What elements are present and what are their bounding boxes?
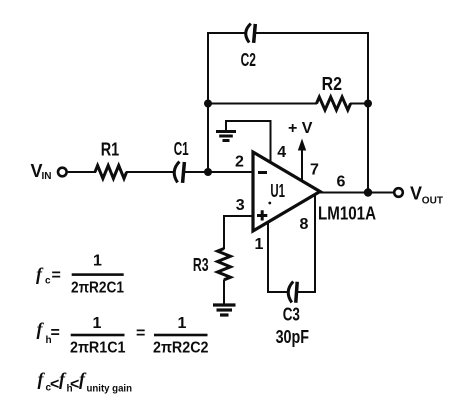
svg-text:4: 4 xyxy=(277,144,286,161)
svg-text:C3: C3 xyxy=(283,305,300,325)
svg-text:f: f xyxy=(38,369,46,389)
svg-text:2πR2C1: 2πR2C1 xyxy=(71,280,124,297)
junction: left vertical / R2 row xyxy=(204,100,212,108)
wire: pin 3 horizontal xyxy=(224,215,253,217)
wire: pin 4 vertical from op-amp top edge xyxy=(270,121,272,164)
ground (below R3) xyxy=(213,305,236,315)
svg-text:V: V xyxy=(410,184,422,204)
formula fc &lt; fh &lt; f unity gain xyxy=(38,369,133,395)
node VIN: input terminal xyxy=(58,168,67,177)
wire: output from apex to VOUT terminal xyxy=(320,192,394,194)
resistor R3 xyxy=(218,249,231,280)
wire: top feedback horizontal, right of C2 xyxy=(256,32,370,34)
ground (compensation, pin 4) xyxy=(216,132,236,141)
svg-text:=: = xyxy=(51,325,60,342)
minus symbol (inverting input) xyxy=(258,171,267,174)
wire: C3 bottom left xyxy=(267,291,287,293)
svg-text:=: = xyxy=(52,267,61,284)
wire: ground stub xyxy=(225,120,227,130)
wire: R1 to C1 xyxy=(126,171,173,173)
svg-text:R3: R3 xyxy=(193,255,209,275)
svg-text:C1: C1 xyxy=(174,139,189,159)
svg-text:R2: R2 xyxy=(322,74,342,94)
capacitor C3 xyxy=(288,281,298,303)
svg-text:IN: IN xyxy=(42,171,52,182)
power +V arrow (pin 7) xyxy=(298,139,306,182)
svg-text:2πR2C2: 2πR2C2 xyxy=(153,340,209,357)
svg-text:unity gain: unity gain xyxy=(87,384,133,395)
svg-text:1: 1 xyxy=(255,236,264,253)
wire: pin 1 vertical xyxy=(267,222,269,293)
svg-text:8: 8 xyxy=(300,216,309,233)
svg-text:1: 1 xyxy=(178,315,187,332)
node VOUT: output terminal xyxy=(394,188,403,197)
svg-text:<: < xyxy=(50,376,59,393)
svg-text:LM101A: LM101A xyxy=(318,204,376,224)
wire: right vertical from top corner down to output node xyxy=(367,33,369,193)
svg-text:1: 1 xyxy=(93,253,102,270)
wire: pin 3 down to R3 xyxy=(223,215,225,249)
svg-text:6: 6 xyxy=(337,174,346,191)
svg-text:+ V: + V xyxy=(288,120,313,137)
junction: right vertical / R2 row xyxy=(364,100,372,108)
wire: top feedback horizontal, left of C2 xyxy=(207,32,245,34)
junction: input line / left vertical xyxy=(204,168,212,176)
svg-text:30pF: 30pF xyxy=(276,327,309,347)
junction: output / right vertical xyxy=(364,188,372,196)
wire: C3 bottom right xyxy=(298,291,317,293)
svg-text:c: c xyxy=(45,276,51,287)
svg-text:f: f xyxy=(36,264,44,284)
wire: R3 to ground xyxy=(223,280,225,305)
wire: pin 8 vertical xyxy=(314,196,316,294)
svg-text:2: 2 xyxy=(235,154,244,171)
wire: top feedback, left vertical segment xyxy=(207,33,209,172)
svg-text:3: 3 xyxy=(236,197,245,214)
svg-text:OUT: OUT xyxy=(422,196,443,207)
svg-text:2πR1C1: 2πR1C1 xyxy=(70,340,126,357)
wire: VIN terminal to R1 xyxy=(67,171,96,173)
svg-text:R1: R1 xyxy=(101,140,120,160)
capacitor C1 xyxy=(173,161,184,183)
wire: R2 row, left segment from left vertical to R2 xyxy=(208,103,317,105)
wire: R2 row, right segment from R2 to right vertical xyxy=(350,103,368,105)
plus symbol (non-inverting input) xyxy=(257,210,267,220)
svg-text:C2: C2 xyxy=(241,50,256,70)
capacitor C2 xyxy=(245,23,255,43)
formula fc = 1/(2piR2C1) xyxy=(36,253,124,297)
svg-text:1: 1 xyxy=(93,315,102,332)
svg-text:=: = xyxy=(136,325,145,342)
op-amp U1 xyxy=(253,152,320,231)
wire: pin 4 horizontal to ground stub xyxy=(226,120,272,122)
resistor R1 xyxy=(95,166,127,179)
svg-text:U1: U1 xyxy=(270,181,285,201)
stray dot xyxy=(268,202,271,205)
svg-text:<: < xyxy=(70,376,79,393)
resistor R2 xyxy=(317,97,351,110)
formula fh = 1/(2piR1C1) = 1/(2piR2C2) xyxy=(37,315,209,357)
svg-text:7: 7 xyxy=(310,162,319,179)
svg-text:f: f xyxy=(37,319,45,339)
wire: C1 to op-amp inverting input (pin 2) xyxy=(185,171,254,173)
